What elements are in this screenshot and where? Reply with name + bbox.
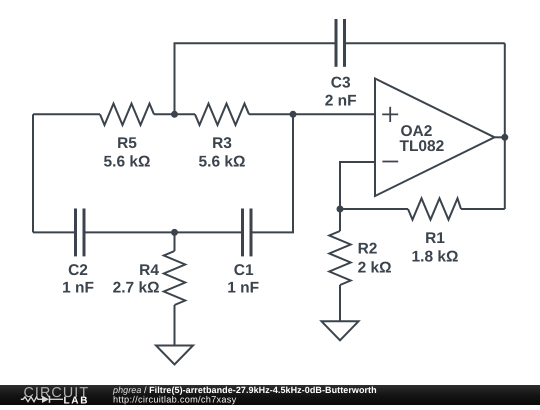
wire inverting input to R2/R1 junction	[340, 162, 375, 209]
svg-text:C2: C2	[68, 262, 88, 279]
svg-text:5.6 kΩ: 5.6 kΩ	[104, 153, 151, 170]
svg-text:5.6 kΩ: 5.6 kΩ	[199, 153, 246, 170]
svg-text:LAB: LAB	[64, 395, 90, 405]
svg-text:R5: R5	[117, 135, 137, 152]
svg-text:C1: C1	[234, 262, 254, 279]
node C2/C1/R4 junction	[171, 229, 178, 236]
svg-text:R2: R2	[358, 241, 378, 258]
svg-text:TL082: TL082	[400, 138, 445, 155]
capacitor C2	[76, 209, 85, 257]
wire R3 to op-amp non-inverting input	[249, 113, 375, 115]
svg-text:http://circuitlab.com/ch7xasy: http://circuitlab.com/ch7xasy	[113, 395, 237, 405]
wire op-amp output	[495, 136, 505, 138]
svg-text:2 kΩ: 2 kΩ	[358, 259, 392, 276]
svg-text:R3: R3	[212, 135, 232, 152]
wire C1 right up to middle net	[253, 114, 294, 232]
resistor R5	[100, 104, 154, 125]
node non-inverting input net junction	[290, 111, 297, 118]
ground below R4	[156, 346, 193, 365]
op-amp OA2	[375, 79, 495, 197]
capacitor C3	[336, 19, 345, 67]
resistor R1	[408, 198, 461, 219]
svg-text:1 nF: 1 nF	[227, 280, 259, 297]
node R2/R1 inverting junction	[337, 206, 344, 213]
svg-text:2 nF: 2 nF	[325, 92, 357, 109]
wire R5 to R3	[154, 113, 195, 115]
wire top feedback from C3 right to output net	[346, 42, 505, 44]
resistor R2	[329, 209, 350, 321]
svg-text:1 nF: 1 nF	[62, 280, 94, 297]
wire middle input net left segment	[33, 113, 100, 115]
wire bottom net left segment	[33, 231, 74, 233]
resistor R4	[164, 232, 185, 345]
wire left vertical	[32, 114, 34, 232]
wire C2 to C1	[86, 231, 242, 233]
node R5/R3/C3 junction	[171, 111, 178, 118]
svg-text:R1: R1	[425, 230, 445, 247]
footer bar	[0, 385, 540, 405]
svg-text:1.8 kΩ: 1.8 kΩ	[412, 249, 459, 266]
svg-text:C3: C3	[331, 75, 351, 92]
svg-text:R4: R4	[139, 262, 159, 279]
wire right vertical output net	[504, 43, 506, 209]
wire top feedback from C3 left down to R5/R3 junction	[175, 43, 335, 114]
svg-text:2.7 kΩ: 2.7 kΩ	[113, 280, 160, 297]
wire R2/R1 junction to R1	[340, 208, 408, 210]
wire R1 to right vertical	[461, 208, 505, 210]
CircuitLab logo	[21, 385, 89, 406]
capacitor C1	[243, 209, 252, 257]
ground below R2	[322, 321, 359, 340]
resistor R3	[195, 104, 249, 125]
node output junction	[501, 134, 508, 141]
